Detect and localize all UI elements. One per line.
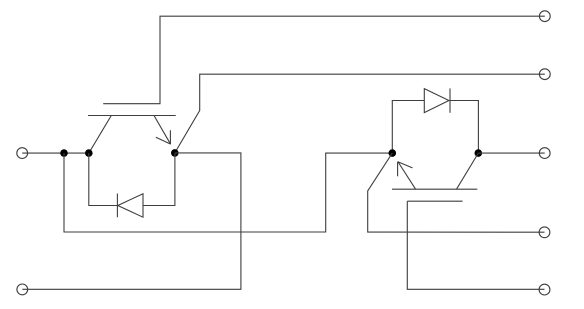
- node E (collector of Q2 / cathode of D2): [475, 149, 483, 157]
- wire: terminal E1 to emitter node of Q1: [175, 74, 545, 153]
- node A (junction dot on collector wire): [60, 149, 68, 157]
- node B (collector of Q1 / cathode of D1): [85, 149, 93, 157]
- wire: node B down to diode D1 cathode: [89, 153, 118, 205]
- diode D2 (freewheel, cathode right): [424, 88, 450, 112]
- wire: collector node of Q2 to terminal C2: [478, 152, 544, 154]
- terminal C1: [17, 148, 28, 159]
- wire: node A down and across to emitter node of Q2: [64, 153, 392, 232]
- terminal G1: [539, 11, 550, 22]
- wire: terminal C1 to collector node of Q1: [22, 152, 89, 154]
- node C (emitter of Q1 / anode of D1): [171, 149, 179, 157]
- terminal E1: [539, 69, 550, 80]
- node D (emitter of Q2 / anode of D2): [389, 149, 397, 157]
- terminal E1-aux (bottom left): [17, 284, 28, 295]
- wire: node C to bottom-left terminal: [22, 153, 241, 289]
- terminal G2: [539, 284, 550, 295]
- wire: Q1 gate to terminal G1: [160, 16, 545, 104]
- terminal E2: [539, 227, 550, 238]
- diode D1 (freewheel, cathode left): [117, 194, 143, 218]
- wire: emitter node of Q2 to terminal E2: [368, 153, 545, 232]
- wire: emitter node of Q2 up to diode D2 anode: [392, 101, 424, 154]
- wire: diode D2 cathode down to collector node of Q2: [450, 101, 478, 154]
- wire: Q2 gate to terminal G2: [407, 201, 544, 289]
- wire: diode D1 anode up to node C: [143, 153, 175, 206]
- terminal C2: [539, 148, 550, 159]
- IGBT Q1 (top switch): [88, 104, 176, 153]
- IGBT Q2 (bottom switch): [392, 153, 478, 201]
